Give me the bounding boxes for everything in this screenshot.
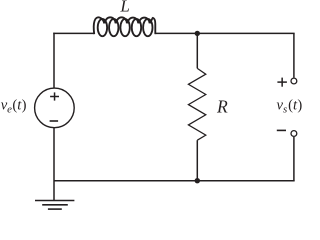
svg-text:ve(t): ve(t) — [1, 97, 27, 115]
svg-text:R: R — [216, 96, 228, 116]
svg-text:vs(t): vs(t) — [277, 97, 303, 115]
svg-text:L: L — [119, 0, 129, 16]
